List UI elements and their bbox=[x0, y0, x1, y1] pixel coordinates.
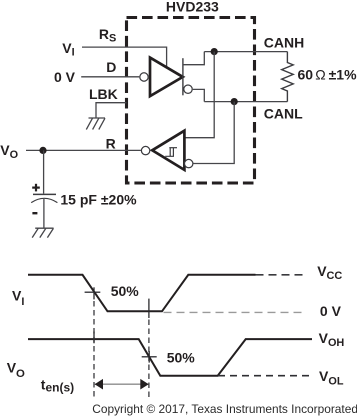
node VO junction dot bbox=[39, 147, 46, 154]
node CANL junction dot bbox=[231, 98, 238, 105]
svg-text:CANL: CANL bbox=[264, 106, 303, 122]
svg-text:0 V: 0 V bbox=[54, 69, 76, 85]
svg-text:50%: 50% bbox=[111, 283, 140, 299]
wire capacitor to ground bbox=[43, 199, 45, 228]
dashed vertical at VI 50% bbox=[93, 301, 95, 400]
svg-text:R: R bbox=[106, 135, 116, 151]
capacitor plus sign bbox=[32, 184, 40, 192]
svg-text:Copyright © 2017, Texas Instru: Copyright © 2017, Texas Instruments Inco… bbox=[92, 402, 357, 416]
wire bubble to CANL bbox=[193, 89, 205, 101]
capacitor C1 15pF plate top bbox=[33, 193, 56, 195]
receiver input bubble bbox=[185, 159, 193, 167]
svg-text:15 pF ±20%: 15 pF ±20% bbox=[60, 192, 137, 208]
tick at VO-high crossing bbox=[93, 332, 95, 344]
svg-text:50%: 50% bbox=[167, 350, 196, 366]
svg-text:D: D bbox=[106, 59, 116, 75]
svg-text:HVD233: HVD233 bbox=[166, 0, 219, 14]
wire CANH to receiver input bbox=[185, 52, 215, 138]
tick VI 50% crosshair bbox=[85, 287, 101, 299]
driver input bubble bbox=[140, 73, 148, 81]
wire R to receiver bbox=[26, 149, 141, 151]
arrowhead right bbox=[140, 379, 148, 390]
waveform VO trace bbox=[28, 339, 312, 376]
svg-text:CANH: CANH bbox=[264, 34, 304, 50]
dashed level VCC bbox=[256, 274, 307, 276]
dashed vertical at VO 50% bbox=[148, 320, 150, 400]
receiver U1b bbox=[152, 131, 184, 170]
capacitor C1 curved plate bbox=[31, 198, 57, 202]
wire LBK bbox=[96, 103, 127, 118]
capacitor minus sign bbox=[32, 212, 37, 214]
driver buffer U1a bbox=[150, 58, 183, 97]
waveform VI trace bbox=[28, 275, 256, 312]
resistor RL 60 ohm bbox=[282, 52, 294, 102]
wire CANH bbox=[204, 51, 287, 53]
wire VI to RS pin into driver top bbox=[82, 47, 167, 68]
driver output gate bar bbox=[182, 58, 184, 95]
bubble on low-side drive bbox=[184, 85, 192, 93]
svg-text:60: 60 bbox=[298, 67, 314, 83]
arrowhead left bbox=[95, 379, 103, 390]
dashed box HVD233 bbox=[127, 18, 255, 184]
wire CANL to receiver input bbox=[193, 102, 234, 164]
wire VO down to capacitor bbox=[43, 150, 45, 193]
ground (LBK) bbox=[86, 118, 105, 130]
arrow ten(s) shaft bbox=[94, 383, 148, 385]
dashed level 0V bbox=[164, 311, 307, 313]
svg-text:±1%: ±1% bbox=[329, 67, 357, 83]
receiver hysteresis symbol bbox=[165, 148, 177, 157]
ground (capacitor) bbox=[32, 228, 53, 237]
svg-text:Ω: Ω bbox=[315, 67, 325, 83]
svg-text:0 V: 0 V bbox=[320, 303, 342, 319]
node CANH junction dot bbox=[211, 48, 218, 55]
tick VO 50% crosshair bbox=[142, 351, 157, 363]
wire gate bar to CANH bbox=[183, 52, 204, 65]
tick at VI-low crossing bbox=[148, 299, 150, 318]
wire CANL bbox=[204, 101, 287, 103]
wire D input bbox=[81, 76, 139, 78]
receiver output bubble bbox=[141, 146, 149, 154]
svg-text:LBK: LBK bbox=[89, 86, 118, 102]
dashed level VOL bbox=[218, 375, 312, 377]
